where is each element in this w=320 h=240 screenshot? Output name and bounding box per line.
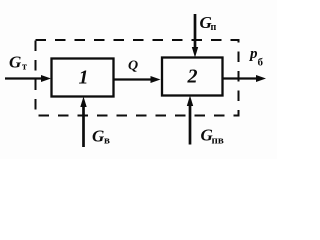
svg-text:G: G [9,53,22,72]
svg-text:2: 2 [187,66,198,88]
svg-text:p: p [248,46,258,62]
block 1 [52,59,114,97]
wire Gв input arrow from bottom [82,105,85,147]
wire pб output arrow [223,77,258,79]
svg-text:б: б [258,57,264,69]
block 2 [162,58,223,96]
wire Gт input arrow [5,77,43,79]
svg-text:т: т [22,62,27,73]
svg-text:пв: пв [212,135,224,147]
svg-text:п: п [211,22,217,33]
wire Q between blocks [114,78,153,80]
wire Gп input arrow from top [194,14,197,49]
svg-text:Q: Q [128,59,138,74]
wire Gпв input arrow from bottom [189,104,192,145]
svg-text:в: в [104,135,110,147]
dashed boundary box [36,40,239,116]
svg-text:1: 1 [79,67,89,89]
